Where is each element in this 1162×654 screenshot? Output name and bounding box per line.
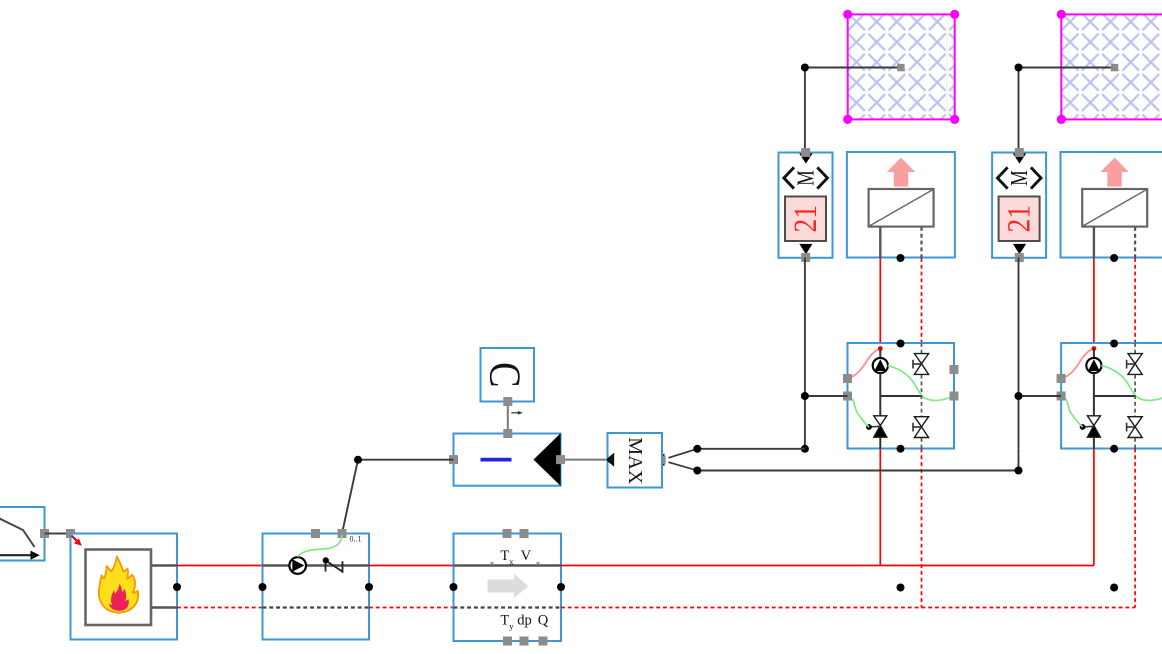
svg-text:C: C — [481, 362, 530, 388]
svg-text:dp: dp — [517, 613, 532, 629]
svg-text:0..1: 0..1 — [350, 535, 362, 544]
svg-text:V: V — [521, 548, 532, 564]
svg-text:Q: Q — [538, 613, 549, 629]
svg-text:y: y — [509, 621, 514, 631]
svg-text:MAX: MAX — [624, 437, 646, 484]
svg-text:T: T — [500, 613, 509, 629]
svg-text:x: x — [509, 557, 514, 567]
svg-text:T: T — [500, 548, 509, 564]
